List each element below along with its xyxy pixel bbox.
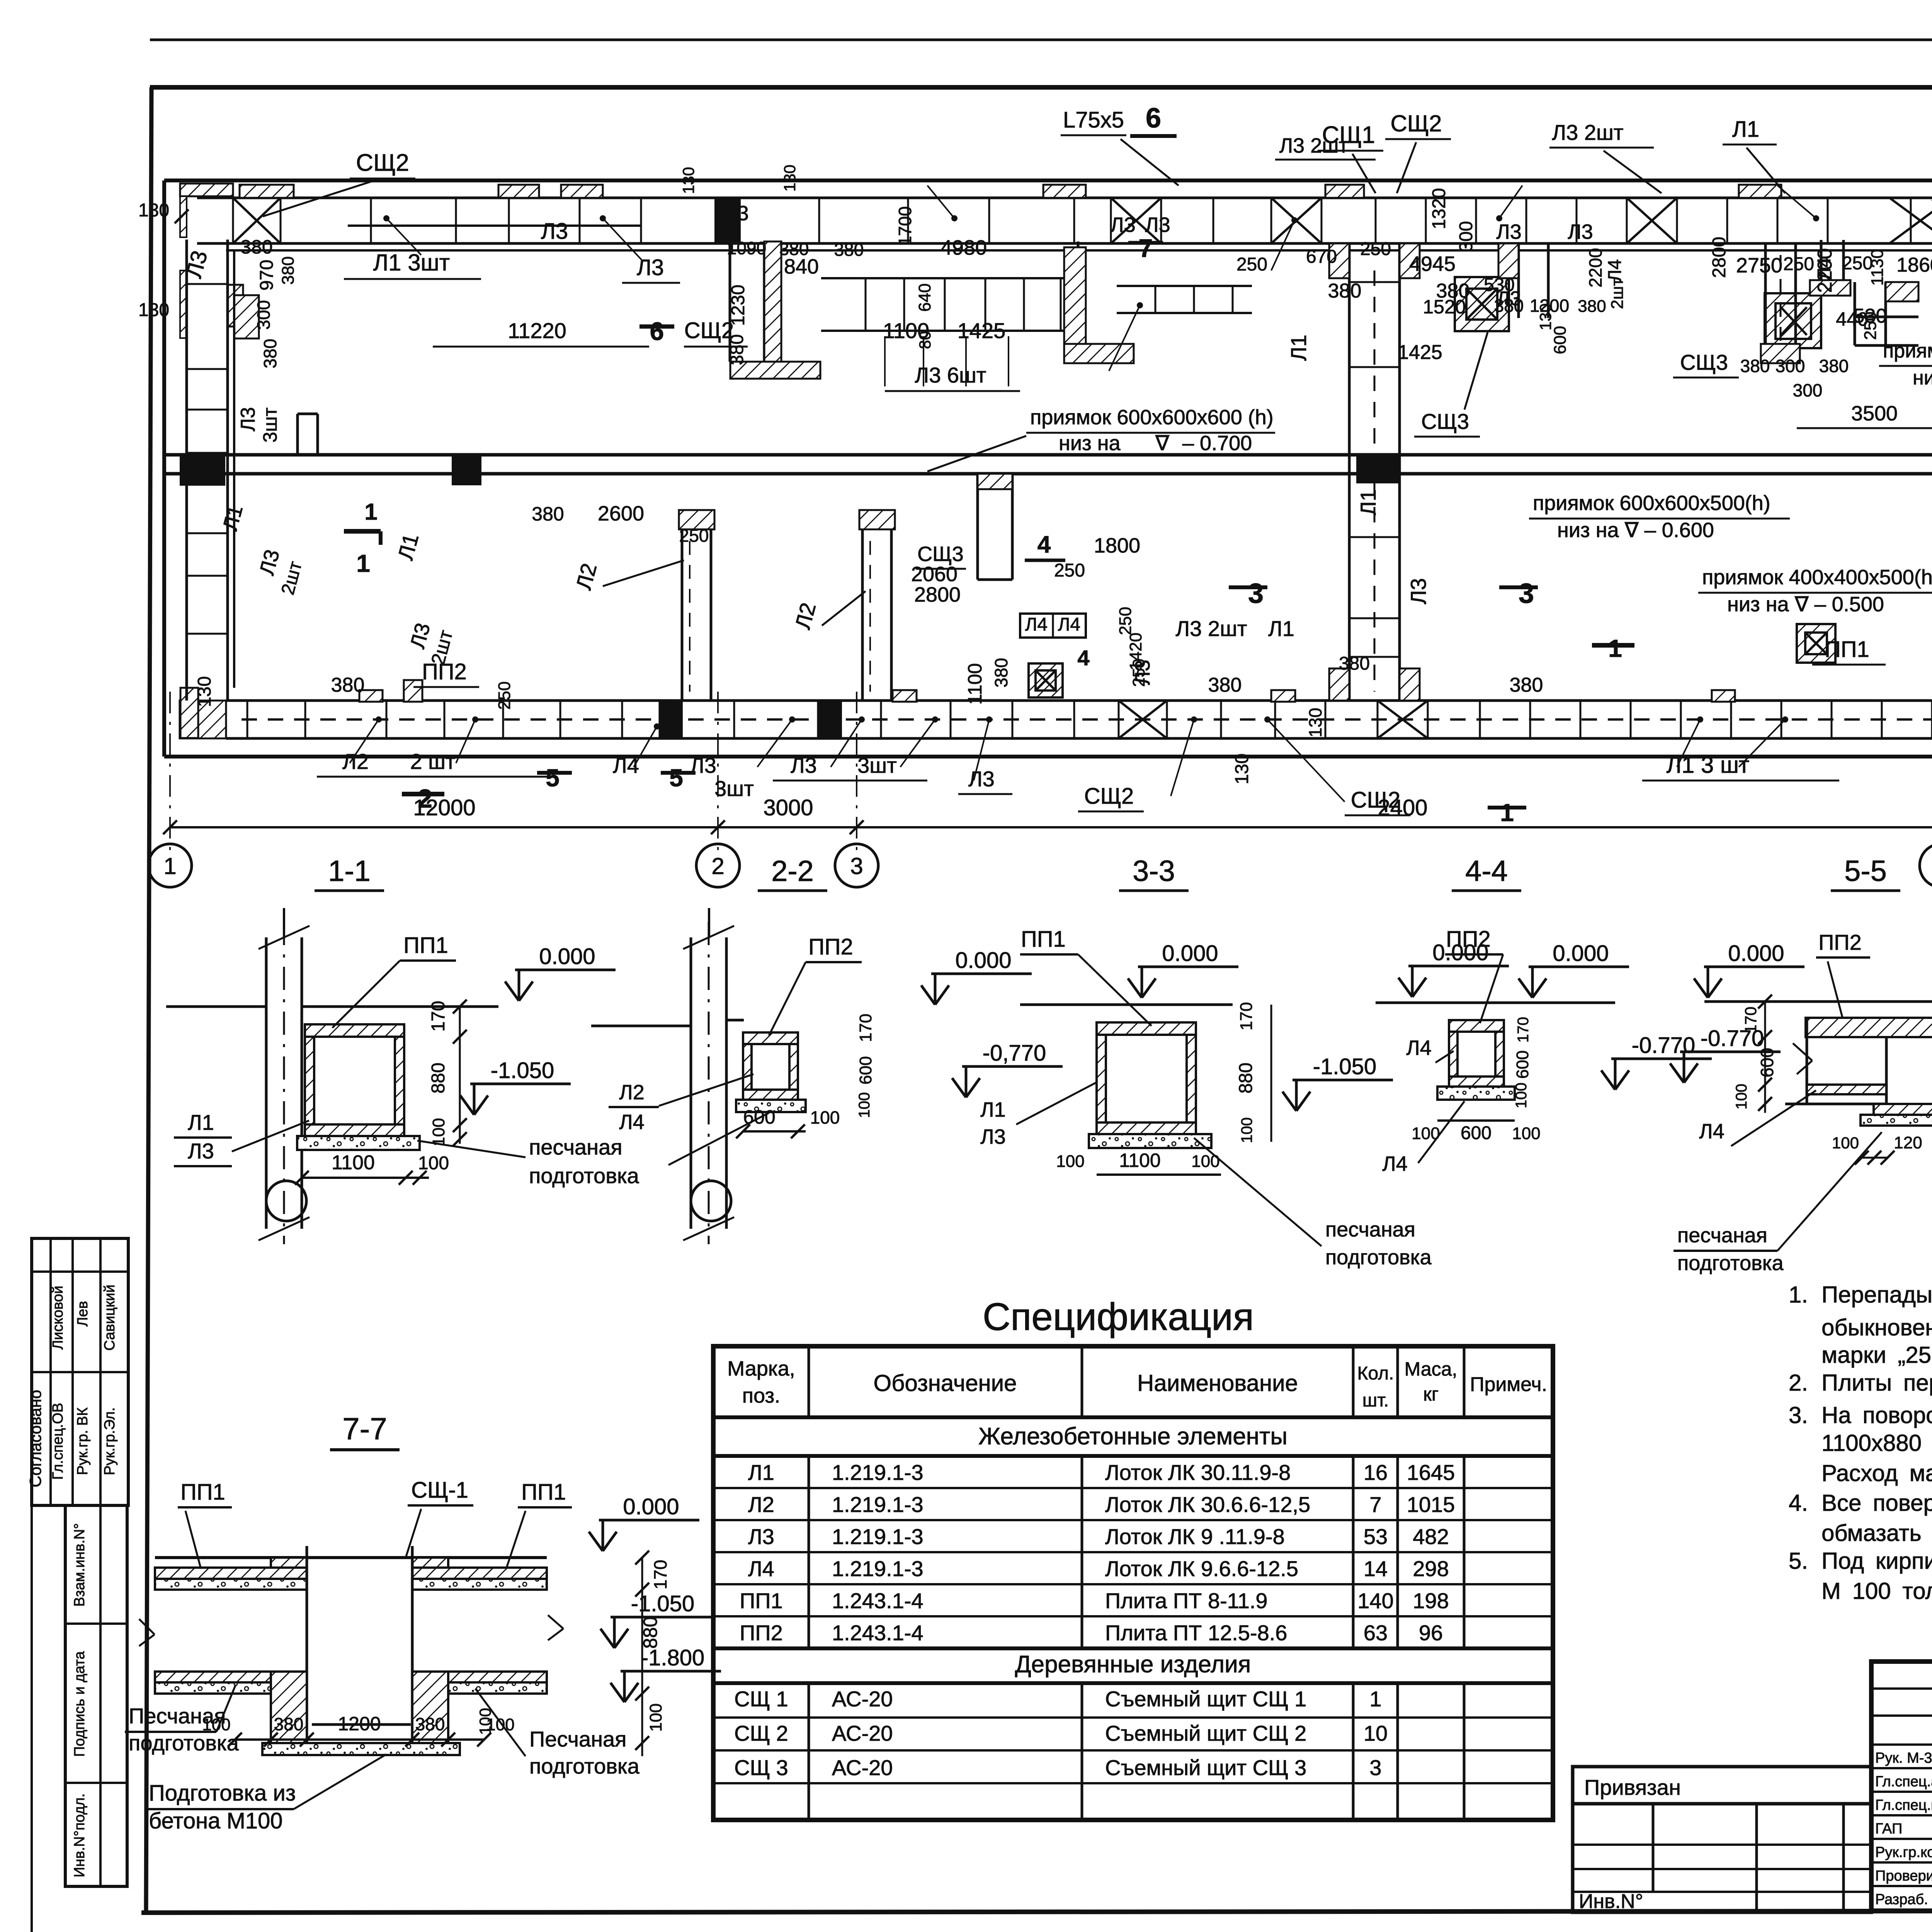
svg-text:песчаная: песчаная	[1325, 1218, 1415, 1241]
svg-text:СЩ2: СЩ2	[1084, 784, 1134, 809]
svg-text:170: 170	[650, 1560, 670, 1590]
section 3-3	[1020, 1003, 1233, 1006]
plan outer wall outline	[164, 179, 1932, 182]
svg-text:1200: 1200	[1530, 296, 1569, 316]
svg-text:1: 1	[1369, 1687, 1381, 1711]
svg-text:4.: 4.	[1789, 1490, 1808, 1516]
7-7 break marks	[139, 1619, 155, 1634]
svg-text:63: 63	[1364, 1621, 1388, 1645]
svg-text:1.243.1-4: 1.243.1-4	[832, 1621, 923, 1645]
svg-text:-1.050: -1.050	[1313, 1054, 1376, 1079]
svg-text:Л4: Л4	[1058, 614, 1080, 635]
svg-text:198: 198	[1413, 1588, 1449, 1613]
top band lotok joints	[232, 198, 234, 243]
svg-text:1100: 1100	[1119, 1150, 1161, 1171]
svg-text:1.219.1-3: 1.219.1-3	[832, 1524, 923, 1549]
svg-text:380: 380	[1339, 653, 1370, 674]
svg-text:3.: 3.	[1789, 1402, 1808, 1428]
svg-text:Л1 3шт: Л1 3шт	[373, 250, 450, 276]
svg-text:1: 1	[163, 853, 176, 879]
svg-text:марки „25": марки „25"	[1821, 1342, 1932, 1368]
svg-text:1.219.1-3: 1.219.1-3	[832, 1460, 923, 1485]
channel lines at axis3 drop	[1077, 241, 1080, 362]
svg-text:Гл.спец.арх: Гл.спец.арх	[1875, 1774, 1932, 1790]
svg-text:3500: 3500	[1851, 402, 1898, 425]
svg-text:Съемный щит СЩ 3: Съемный щит СЩ 3	[1105, 1755, 1306, 1780]
top band wall black blocks	[714, 198, 741, 243]
svg-text:-1.800: -1.800	[641, 1645, 704, 1670]
svg-text:0.000: 0.000	[1162, 941, 1218, 966]
5-5 bottom dims	[1862, 1157, 1888, 1159]
section 1-1	[265, 937, 268, 1229]
svg-text:1520: 1520	[1423, 296, 1466, 318]
svg-text:3: 3	[850, 853, 863, 879]
svg-text:1.: 1.	[1789, 1282, 1808, 1308]
svg-text:подготовка: подготовка	[1677, 1252, 1784, 1275]
svg-text:380: 380	[260, 339, 280, 369]
svg-text:Л3: Л3	[968, 767, 995, 791]
svg-text:Л3: Л3	[541, 219, 568, 244]
svg-text:Л3: Л3	[791, 753, 817, 777]
svg-text:Л3: Л3	[1496, 220, 1521, 243]
svg-text:М 100 толщиной 100мм.: М 100 толщиной 100мм.	[1821, 1578, 1932, 1604]
svg-text:Л3: Л3	[1131, 660, 1154, 685]
svg-text:Л3: Л3	[237, 407, 259, 431]
7-7 concrete base	[262, 1743, 460, 1755]
svg-text:880: 880	[1236, 1063, 1256, 1094]
svg-text:Инв.N°подл.: Инв.N°подл.	[71, 1793, 88, 1877]
svg-text:14: 14	[1364, 1556, 1388, 1581]
svg-text:подготовка: подготовка	[129, 1731, 239, 1755]
svg-text:380: 380	[1328, 280, 1362, 302]
svg-text:песчаная: песчаная	[1677, 1224, 1767, 1247]
mid-plan stub right of axis 3	[1064, 247, 1086, 363]
frame left border	[146, 87, 151, 1913]
svg-text:6: 6	[1146, 103, 1161, 134]
svg-text:380: 380	[779, 239, 809, 259]
svg-text:3шт: 3шт	[714, 776, 754, 801]
svg-text:2шт: 2шт	[1608, 278, 1627, 309]
svg-text:приямок 600х600х500(h): приямок 600х600х500(h)	[1533, 492, 1770, 515]
section 7-7 floor line	[155, 1556, 547, 1559]
section 4-4	[1376, 1002, 1615, 1004]
Л4 2шт stub at 4560	[1764, 243, 1767, 363]
svg-text:СЩ3: СЩ3	[1421, 409, 1469, 434]
svg-text:250: 250	[1861, 311, 1880, 340]
svg-text:380: 380	[1494, 296, 1524, 316]
svg-text:12000: 12000	[413, 795, 475, 820]
svg-text:530: 530	[1484, 275, 1515, 295]
svg-text:380: 380	[1510, 674, 1543, 696]
svg-text:Плиты перекрытия каналов ук: Плиты перекрытия каналов укладывать на р…	[1821, 1370, 1932, 1396]
svg-text:Лоток ЛК 9 .11.9-8: Лоток ЛК 9 .11.9-8	[1105, 1524, 1285, 1549]
svg-text:130: 130	[138, 300, 169, 320]
svg-text:1: 1	[1500, 799, 1514, 827]
приямок 400х400 square (right lower)	[1797, 624, 1835, 663]
svg-text:L75х5: L75х5	[1063, 107, 1124, 133]
svg-text:Подпись и дата: Подпись и дата	[71, 1651, 88, 1757]
specification table	[713, 1346, 1553, 1820]
7-7 pit walls	[306, 1558, 308, 1743]
svg-text:1100: 1100	[332, 1151, 375, 1174]
svg-text:Л1: Л1	[188, 1110, 214, 1134]
svg-text:300: 300	[1776, 356, 1805, 376]
svg-text:ГАП: ГАП	[1875, 1821, 1902, 1837]
svg-text:0.000: 0.000	[623, 1494, 679, 1519]
svg-text:170: 170	[1237, 1002, 1256, 1030]
svg-text:Л3: Л3	[1568, 220, 1593, 243]
svg-text:Рук.гр.Эл.: Рук.гр.Эл.	[102, 1407, 118, 1475]
svg-text:СЩ-1: СЩ-1	[411, 1478, 468, 1503]
svg-text:Лисковой: Лисковой	[50, 1286, 66, 1349]
axis dimension line	[170, 826, 1932, 828]
svg-text:10: 10	[1364, 1721, 1388, 1745]
svg-text:ПП2: ПП2	[422, 659, 467, 684]
svg-text:100: 100	[856, 1092, 873, 1118]
svg-text:Инв.N°: Инв.N°	[1579, 1890, 1643, 1913]
svg-text:Наименование: Наименование	[1137, 1370, 1298, 1396]
svg-text:ПП2: ПП2	[1818, 930, 1862, 954]
svg-text:Железобетонные элементы: Железобетонные элементы	[978, 1423, 1287, 1450]
upper-left inner partition lines	[296, 414, 299, 456]
svg-text:1320: 1320	[1429, 188, 1449, 230]
svg-text:Рук.гр.кон: Рук.гр.кон	[1875, 1844, 1932, 1861]
svg-text:2 шт: 2 шт	[410, 749, 455, 774]
svg-text:1200: 1200	[338, 1713, 381, 1735]
svg-text:100: 100	[1513, 1083, 1530, 1109]
svg-text:Гл.спец.кон: Гл.спец.кон	[1875, 1797, 1932, 1813]
svg-text:100: 100	[1733, 1084, 1750, 1110]
svg-text:5-5: 5-5	[1844, 855, 1887, 888]
svg-text:Л1: Л1	[748, 1460, 774, 1485]
svg-text:-0.770: -0.770	[1701, 1026, 1764, 1051]
svg-text:298: 298	[1413, 1556, 1449, 1581]
svg-text:11220: 11220	[508, 318, 566, 343]
svg-text:250: 250	[1360, 239, 1391, 259]
svg-text:Л4: Л4	[1699, 1120, 1724, 1143]
svg-text:100: 100	[1832, 1134, 1859, 1152]
svg-text:Спецификация: Спецификация	[983, 1295, 1254, 1338]
svg-text:-1.050: -1.050	[631, 1591, 694, 1616]
svg-text:Лоток ЛК 30.11.9-8: Лоток ЛК 30.11.9-8	[1105, 1460, 1291, 1485]
plan top channel band	[197, 197, 1932, 199]
svg-text:2200: 2200	[1585, 248, 1605, 287]
svg-text:130: 130	[194, 676, 215, 707]
svg-text:шт.: шт.	[1362, 1390, 1389, 1411]
svg-text:Плита ПТ 8-11.9: Плита ПТ 8-11.9	[1105, 1588, 1268, 1613]
svg-text:600: 600	[1551, 326, 1570, 354]
svg-text:2400: 2400	[1378, 795, 1427, 820]
svg-text:4: 4	[1037, 531, 1051, 558]
svg-text:Съемный щит СЩ 2: Съемный щит СЩ 2	[1105, 1721, 1306, 1745]
svg-text:4980: 4980	[940, 236, 987, 259]
svg-text:Подготовка из: Подготовка из	[149, 1781, 296, 1806]
svg-text:Рук.гр. ВК: Рук.гр. ВК	[75, 1407, 91, 1475]
svg-text:3шт: 3шт	[259, 407, 281, 442]
sheet top edge lines	[150, 39, 1932, 41]
svg-text:0.000: 0.000	[1728, 941, 1784, 966]
привязан box	[1573, 1767, 1871, 1804]
svg-text:∇: ∇	[1155, 432, 1170, 455]
svg-text:380: 380	[240, 236, 272, 258]
svg-text:бетона М100: бетона М100	[149, 1808, 283, 1833]
svg-text:Лоток ЛК 9.6.6-12.5: Лоток ЛК 9.6.6-12.5	[1105, 1556, 1298, 1581]
svg-text:100: 100	[202, 1715, 230, 1734]
svg-text:600: 600	[743, 1106, 775, 1128]
svg-text:Л3 2шт: Л3 2шт	[1279, 134, 1349, 157]
svg-text:Привязан: Привязан	[1584, 1775, 1681, 1799]
svg-text:Л4: Л4	[1025, 614, 1048, 635]
svg-text:-0.770: -0.770	[1632, 1033, 1695, 1058]
svg-text:Расход материалов : L75х5: Расход материалов : L75х5 — 100кг ; L50х…	[1821, 1460, 1932, 1486]
7-7 bottom dims	[235, 1738, 484, 1741]
svg-text:Л1: Л1	[1286, 335, 1311, 361]
svg-text:СЩ2: СЩ2	[1391, 111, 1442, 136]
axis2 drop channel	[729, 241, 731, 362]
svg-text:Песчаная: Песчаная	[529, 1727, 626, 1751]
svg-text:1700: 1700	[895, 206, 915, 246]
svg-text:130: 130	[781, 165, 799, 192]
vertical channel above central pit	[1517, 243, 1520, 318]
приямок 600х600х600 square (right)	[1765, 293, 1821, 348]
svg-text:Л2: Л2	[748, 1492, 774, 1517]
svg-text:130: 130	[138, 200, 169, 221]
svg-text:подготовка: подготовка	[1325, 1246, 1432, 1269]
upper mid horizontal channel (11220)	[348, 224, 641, 227]
svg-text:100: 100	[1191, 1152, 1219, 1171]
svg-text:2800: 2800	[914, 583, 961, 606]
svg-text:1015: 1015	[1407, 1492, 1455, 1517]
svg-text:Взам.инв.N°: Взам.инв.N°	[71, 1523, 88, 1607]
svg-text:Лоток ЛК 30.6.6-12,5: Лоток ЛК 30.6.6-12,5	[1105, 1492, 1310, 1517]
left margin scan edge	[31, 1238, 33, 1932]
svg-text:1425: 1425	[1398, 341, 1442, 364]
bottom wall hatches	[180, 688, 198, 738]
svg-text:Л1: Л1	[980, 1098, 1005, 1121]
5-5 dims left	[1764, 1002, 1766, 1113]
svg-text:Л3: Л3	[1110, 213, 1135, 236]
svg-text:Л3: Л3	[1406, 578, 1430, 604]
svg-text:Л1: Л1	[1268, 616, 1294, 641]
svg-text:1100х880 и L50х5 для кана: 1100х880 и L50х5 для каналов 600х600.	[1821, 1430, 1932, 1456]
bottom band crosses	[1119, 701, 1167, 738]
svg-text:АС-20: АС-20	[832, 1755, 893, 1780]
svg-text:380: 380	[834, 240, 864, 260]
svg-text:ПП2: ПП2	[740, 1621, 783, 1645]
svg-text:СЩ 1: СЩ 1	[734, 1687, 788, 1711]
svg-text:СЩ 3: СЩ 3	[734, 1755, 788, 1780]
section 5-5	[1708, 978, 1722, 998]
svg-text:Л3: Л3	[1145, 213, 1170, 236]
svg-text:1.243.1-4: 1.243.1-4	[832, 1588, 923, 1613]
svg-text:380: 380	[415, 1714, 445, 1734]
svg-text:Обозначение: Обозначение	[873, 1370, 1017, 1396]
svg-text:обмазать горячим битумом: обмазать горячим битумом за 2 раза.	[1821, 1520, 1932, 1546]
svg-text:0.000: 0.000	[1432, 940, 1488, 965]
svg-text:380: 380	[1819, 356, 1849, 376]
svg-text:130: 130	[679, 167, 697, 194]
svg-text:Л3 2шт: Л3 2шт	[1175, 616, 1247, 641]
svg-text:130: 130	[1232, 753, 1252, 784]
svg-text:-0,770: -0,770	[983, 1041, 1046, 1066]
svg-text:СЩ3: СЩ3	[1680, 350, 1728, 374]
plan middle wall (axis Б)	[164, 453, 1932, 457]
svg-text:600: 600	[1513, 1050, 1532, 1078]
svg-text:Маса,: Маса,	[1405, 1358, 1458, 1380]
svg-text:7: 7	[1139, 234, 1153, 262]
svg-text:100: 100	[486, 1715, 514, 1734]
svg-text:песчаная: песчаная	[529, 1135, 622, 1159]
svg-text:– 0.700: – 0.700	[1182, 432, 1252, 455]
svg-text:2600: 2600	[598, 502, 644, 525]
svg-text:100: 100	[1512, 1124, 1540, 1143]
svg-text:880: 880	[428, 1063, 449, 1094]
svg-text:кг: кг	[1423, 1383, 1439, 1405]
svg-text:1645: 1645	[1407, 1460, 1455, 1485]
Г structure right of center	[1854, 282, 1856, 345]
svg-text:600: 600	[1461, 1123, 1492, 1143]
svg-text:300: 300	[253, 300, 274, 330]
svg-text:ПП2: ПП2	[808, 934, 853, 959]
svg-text:низ на ∇ – 0.500: низ на ∇ – 0.500	[1727, 593, 1884, 616]
svg-text:Л4: Л4	[619, 1111, 644, 1134]
svg-text:250: 250	[1783, 254, 1814, 274]
svg-text:-1.050: -1.050	[491, 1058, 554, 1083]
svg-text:подготовка: подготовка	[529, 1754, 640, 1778]
svg-text:СЩ 2: СЩ 2	[734, 1721, 788, 1745]
svg-text:низ на: низ на	[1059, 432, 1121, 455]
svg-text:1130: 1130	[1868, 249, 1887, 286]
svg-text:Л2: Л2	[619, 1081, 644, 1104]
svg-text:250: 250	[1116, 607, 1135, 635]
plan central channel (axis between 3-4)	[1348, 243, 1351, 701]
svg-text:670: 670	[1306, 247, 1337, 267]
svg-text:Плита ПТ 12.5-8.6: Плита ПТ 12.5-8.6	[1105, 1621, 1287, 1645]
svg-text:4-4: 4-4	[1465, 855, 1508, 888]
svg-text:1: 1	[364, 499, 377, 525]
svg-text:380: 380	[991, 658, 1011, 688]
svg-text:Л4: Л4	[1814, 257, 1835, 280]
svg-text:53: 53	[1364, 1524, 1388, 1549]
svg-text:380: 380	[331, 674, 365, 696]
svg-text:170: 170	[1515, 1017, 1532, 1043]
square pit lower-left (СЩ3)	[1029, 663, 1063, 697]
svg-text:Под кирпичные участки кан: Под кирпичные участки каналов подготовку…	[1821, 1548, 1932, 1574]
left-mid vertical stubs from bottom band	[681, 522, 684, 701]
svg-text:2750: 2750	[1736, 254, 1782, 277]
title block	[1871, 1662, 1932, 1911]
svg-text:380: 380	[1740, 356, 1770, 376]
svg-text:2060: 2060	[911, 563, 957, 586]
svg-text:СЩ2: СЩ2	[684, 318, 734, 343]
svg-text:ПП1: ПП1	[1825, 637, 1869, 662]
svg-text:4: 4	[1077, 646, 1089, 670]
svg-text:ПП1: ПП1	[403, 933, 448, 958]
svg-text:Проверил: Проверил	[1875, 1868, 1932, 1884]
svg-text:3: 3	[1519, 578, 1534, 609]
bottom band black blocks	[660, 699, 683, 740]
svg-text:1100: 1100	[964, 663, 986, 705]
svg-text:0.000: 0.000	[1553, 941, 1609, 966]
svg-text:3шт: 3шт	[857, 753, 897, 777]
svg-text:1425: 1425	[957, 318, 1006, 343]
svg-text:3: 3	[1248, 578, 1264, 609]
svg-text:96: 96	[1419, 1621, 1443, 1645]
svg-text:Л3: Л3	[980, 1125, 1005, 1148]
bottom wall corner hatch	[180, 701, 226, 738]
svg-text:Съемный щит СЩ 1: Съемный щит СЩ 1	[1105, 1687, 1306, 1711]
svg-text:Л1: Л1	[1356, 489, 1380, 515]
svg-text:3000: 3000	[763, 795, 813, 820]
plan bottom channel band	[226, 699, 1932, 702]
svg-text:1: 1	[1608, 634, 1622, 662]
svg-text:Марка,: Марка,	[727, 1357, 795, 1380]
svg-text:16: 16	[1364, 1460, 1388, 1485]
svg-text:250: 250	[1236, 254, 1267, 275]
plan left vertical channel	[185, 240, 188, 701]
svg-text:970: 970	[257, 260, 277, 291]
upper mid inner partition (2060/2800 area)	[976, 474, 979, 580]
leader dots bottom band	[376, 716, 382, 723]
svg-text:2: 2	[711, 853, 724, 879]
central channel top hatch walls	[1329, 243, 1349, 278]
svg-text:Л3: Л3	[748, 1524, 774, 1549]
svg-text:Л2: Л2	[342, 749, 369, 774]
svg-text:1-1: 1-1	[328, 855, 371, 888]
svg-text:АС-20: АС-20	[832, 1721, 893, 1745]
svg-text:100: 100	[1056, 1152, 1084, 1171]
svg-text:380: 380	[1578, 297, 1606, 316]
svg-text:380: 380	[279, 256, 298, 284]
svg-text:На поворотах каналов для оп: На поворотах каналов для опирания плит у…	[1821, 1402, 1932, 1428]
svg-text:Кол.: Кол.	[1357, 1363, 1394, 1384]
svg-text:0.000: 0.000	[955, 948, 1011, 973]
svg-text:Деревянные изделия: Деревянные изделия	[1015, 1651, 1251, 1678]
middle wall black blocks	[180, 455, 225, 486]
svg-text:0.000: 0.000	[539, 944, 595, 969]
svg-text:2800: 2800	[1709, 237, 1730, 278]
svg-text:2.: 2.	[1789, 1370, 1808, 1396]
svg-text:380: 380	[1208, 674, 1242, 696]
svg-text:подготовка: подготовка	[529, 1163, 639, 1188]
top band removable panel crosses	[233, 198, 281, 243]
svg-text:низ на ∇ – 0.600: низ на ∇ – 0.600	[1557, 519, 1714, 542]
svg-text:120: 120	[1894, 1133, 1922, 1152]
left margin: approval table	[32, 1238, 128, 1505]
corner wall jog piece	[228, 285, 243, 327]
svg-text:приямок 600х600х600 (h): приямок 600х600х600 (h)	[1030, 406, 1274, 429]
svg-text:Л3: Л3	[723, 202, 748, 225]
svg-text:Л1: Л1	[1732, 117, 1759, 142]
svg-text:1100: 1100	[883, 318, 929, 343]
svg-text:300: 300	[1793, 380, 1823, 400]
svg-text:5: 5	[546, 764, 560, 792]
svg-text:1090: 1090	[727, 238, 766, 258]
svg-text:140: 140	[1357, 1588, 1393, 1613]
svg-text:7: 7	[1369, 1492, 1381, 1517]
svg-text:1.219.1-3: 1.219.1-3	[832, 1556, 923, 1581]
svg-text:170: 170	[856, 1014, 875, 1042]
section 2-2	[690, 937, 692, 1229]
svg-text:приямок 600х600х600: приямок 600х600х600	[1883, 340, 1932, 362]
7-7 left channel slabs	[155, 1568, 307, 1579]
svg-text:поз.: поз.	[742, 1384, 780, 1407]
svg-text:482: 482	[1413, 1524, 1449, 1549]
svg-text:100: 100	[810, 1107, 840, 1128]
svg-text:3: 3	[1369, 1755, 1381, 1780]
svg-text:380: 380	[532, 503, 564, 525]
svg-text:Примеч.: Примеч.	[1470, 1373, 1547, 1396]
